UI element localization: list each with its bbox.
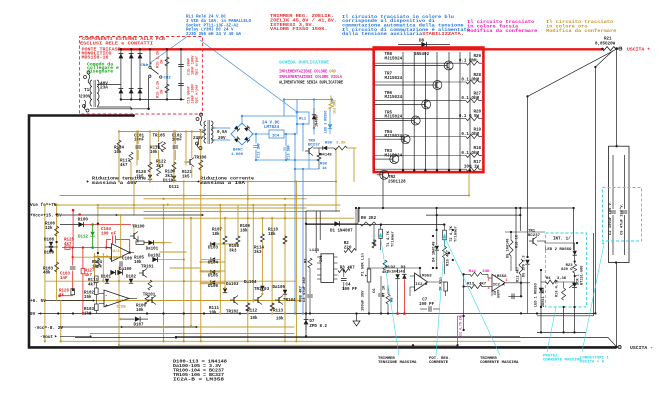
svg-text:C9 47uF 100 V.: C9 47uF 100 V.	[621, 203, 625, 235]
svg-text:5pz a/par: 5pz a/par	[195, 56, 200, 75]
node USCITA+ dot	[615, 47, 618, 50]
svg-text:Da101: Da101	[146, 248, 159, 252]
svg-text:10nF: 10nF	[134, 139, 145, 143]
svg-text:TR105-106 = BC327: TR105-106 = BC327	[173, 374, 225, 378]
svg-text:0V: 0V	[30, 312, 36, 317]
svg-text:0.1 OhM: 0.1 OhM	[461, 132, 479, 137]
svg-text:MJ15024: MJ15024	[385, 77, 403, 81]
svg-text:SCHEDA DUPLICATORE: SCHEDA DUPLICATORE	[279, 62, 330, 66]
regulator IC4 box	[269, 130, 284, 138]
svg-text:D105: D105	[208, 274, 219, 278]
svg-text:230V: 230V	[80, 95, 91, 100]
svg-text:D106: D106	[208, 285, 219, 289]
blue LED3	[328, 124, 332, 128]
wires around error opamp 1	[367, 268, 420, 296]
svg-text:R3 4K7: R3 4K7	[340, 267, 356, 271]
resistor R36b 1k	[317, 153, 321, 161]
svg-text:D107: D107	[134, 323, 145, 327]
0V rail	[38, 313, 537, 315]
svg-text:D111: D111	[169, 186, 180, 190]
vertical wire USCITA+ to capacitor box	[616, 50, 618, 147]
svg-text:TR100-104 = BC237: TR100-104 = BC237	[173, 370, 225, 374]
svg-text:100 uF: 100 uF	[101, 232, 117, 236]
transistor TR8 MJ15024	[375, 53, 454, 70]
svg-text:3k3: 3k3	[156, 164, 164, 169]
svg-text:Trimmer: Trimmer	[391, 231, 396, 247]
capacitor C8 56pF	[511, 294, 513, 300]
wire IC1 section frame	[175, 208, 520, 336]
fucsia resistor R22 wire	[457, 316, 459, 345]
svg-text:R1b 2,2k: R1b 2,2k	[156, 50, 161, 68]
diagonal wire from USCITA+ node	[528, 50, 616, 257]
wire verticals from output bus	[358, 208, 360, 222]
resistor R105b	[148, 280, 152, 290]
svg-text:R113: R113	[273, 310, 284, 314]
svg-text:230V: 230V	[193, 137, 204, 141]
gold wire vertical rails	[45, 96, 469, 345]
svg-text:R36: R36	[320, 163, 328, 167]
svg-text:P1 50K Lin: P1 50K Lin	[361, 252, 366, 276]
svg-text:1k5: 1k5	[182, 174, 190, 179]
svg-text:U/2: U/2	[113, 249, 121, 254]
blue wires auxiliary supply	[215, 100, 332, 314]
relay RL1 box	[297, 112, 309, 124]
svg-text:C6: C6	[373, 288, 377, 293]
wire bottom sense line	[75, 338, 616, 347]
svg-text:Da105: Da105	[273, 286, 286, 290]
svg-text:4k7: 4k7	[88, 282, 96, 287]
svg-text:IC2A-B = LM358: IC2A-B = LM358	[173, 379, 225, 383]
wire -Vcc mid arrow	[121, 326, 123, 328]
svg-text:D104: D104	[208, 262, 219, 266]
wire T1 mid tap	[148, 99, 150, 108]
wire T1 secondary to bridge	[97, 84, 121, 86]
ground symbol	[353, 321, 360, 326]
svg-text:MJ15024: MJ15024	[385, 57, 403, 61]
svg-text:R27: R27	[473, 93, 481, 97]
svg-text:C101: C101	[134, 134, 145, 138]
wire output bus upper right	[359, 207, 574, 209]
svg-text:Modifica da confermare: Modifica da confermare	[467, 29, 538, 34]
junction dots black	[55, 66, 617, 347]
svg-text:820 O: 820 O	[561, 268, 573, 272]
gold wire horizontal rails	[45, 132, 520, 346]
op-amp IC2B main	[104, 290, 129, 307]
fucsia wire net at D2 D3	[397, 279, 399, 313]
svg-text:Da102: Da102	[148, 255, 161, 259]
capacitor C6	[378, 293, 384, 295]
resistor emitter TR100	[136, 241, 144, 244]
svg-text:LED 1 ROSSO: LED 1 ROSSO	[535, 282, 539, 307]
svg-text:C13 1mF: C13 1mF	[288, 145, 292, 160]
svg-text:corrisponde al dispositivo di: corrisponde al dispositivo di	[342, 19, 435, 24]
capacitor C9 symbol	[624, 155, 626, 209]
svg-text:0.1 OhM: 0.1 OhM	[461, 96, 479, 101]
svg-text:MJ15024: MJ15024	[385, 96, 403, 100]
svg-text:10k: 10k	[150, 150, 158, 155]
capacitor C4 100pF	[341, 278, 347, 280]
svg-text:18k: 18k	[268, 232, 276, 237]
svg-text:R1b 2,2k: R1b 2,2k	[156, 80, 161, 98]
svg-text:100k: 100k	[92, 264, 103, 269]
gold rail y281	[45, 280, 297, 282]
svg-text:1/2: 1/2	[116, 299, 124, 304]
svg-text:Da100: Da100	[119, 268, 132, 272]
svg-text:3k3: 3k3	[254, 250, 262, 255]
junction dots blue	[241, 98, 333, 314]
svg-text:MJ15024: MJ15024	[385, 116, 403, 120]
svg-text:Relay LY3HJ DC 24 V: Relay LY3HJ DC 24 V	[186, 28, 234, 33]
resistor R36 3k3	[334, 146, 347, 150]
svg-text:20V: 20V	[218, 137, 226, 141]
transformer T1	[83, 71, 100, 112]
op-amp IC2A comparator	[492, 274, 505, 291]
svg-text:TR101: TR101	[141, 266, 154, 270]
svg-text:C7: C7	[422, 299, 428, 303]
svg-text:Socket PT11-13F-3Z-A2: Socket PT11-13F-3Z-A2	[186, 23, 239, 28]
svg-text:R1: R1	[305, 258, 309, 263]
svg-text:3 VIE da 10A. in PARALLELO: 3 VIE da 10A. in PARALLELO	[186, 19, 251, 24]
diode D1 1N4007	[334, 221, 339, 226]
wire bridge bottom rail	[121, 98, 184, 100]
svg-text:1.000: 1.000	[231, 153, 244, 157]
svg-text:R29: R29	[473, 55, 481, 59]
svg-text:1N4007: 1N4007	[316, 114, 320, 127]
svg-text:1N5402: 1N5402	[414, 53, 430, 57]
wire rail y224.6	[306, 224, 444, 226]
svg-text:USCITA + A: USCITA + A	[580, 361, 605, 365]
svg-text:2: 2	[488, 278, 490, 282]
svg-text:4k7: 4k7	[120, 163, 128, 168]
svg-text:R7 1K: R7 1K	[383, 285, 387, 297]
svg-text:C4: C4	[346, 284, 352, 288]
svg-text:commutazione automatica della: commutazione automatica della tensione	[342, 24, 464, 29]
diode D13 1N4007	[313, 108, 315, 128]
IC1 regulator box	[321, 254, 334, 283]
svg-text:5pz a/par: 5pz a/par	[195, 84, 200, 103]
diode 1N4148 at TR9	[323, 146, 327, 150]
resistor R15 4k7 rotated	[443, 246, 447, 258]
svg-text:10nF: 10nF	[172, 139, 183, 143]
cyan leader line trimmer tensione	[381, 239, 399, 355]
trimmer P1	[367, 269, 371, 282]
junction dot chassis top	[132, 114, 135, 117]
capacitor C12 blue	[253, 145, 259, 147]
svg-text:IC2 A: IC2 A	[493, 284, 506, 288]
resistor R vertical 1k	[444, 282, 448, 291]
thick red positive bus	[118, 48, 602, 50]
svg-text:D103: D103	[208, 246, 219, 250]
svg-text:ZPD 8.2: ZPD 8.2	[309, 325, 327, 329]
svg-text:R13: R13	[467, 283, 475, 287]
svg-text:3k3: 3k3	[165, 174, 173, 179]
wire -Vout stub	[60, 335, 91, 337]
thick chassis border left	[29, 116, 617, 348]
svg-text:0.1 OhM.: 0.1 OhM.	[459, 59, 479, 64]
svg-text:18k: 18k	[240, 228, 248, 233]
wires comparator output	[492, 283, 530, 297]
capacitor box C2 C9 outline	[609, 146, 630, 262]
svg-text:100 PF: 100 PF	[419, 303, 435, 307]
svg-text:LED 3 ROSSO: LED 3 ROSSO	[325, 111, 329, 133]
svg-text:RL1 Relé 24 V.DC: RL1 Relé 24 V.DC	[186, 15, 226, 20]
wire +Vcc rail	[61, 214, 203, 216]
transistor TR6 MJ15024	[375, 92, 431, 109]
svg-text:R19: R19	[473, 128, 481, 132]
svg-text:D7: D7	[309, 320, 315, 324]
svg-text:IMPLEMENTAZIONI COLORE VIOLA: IMPLEMENTAZIONI COLORE VIOLA	[279, 76, 342, 80]
svg-text:L123: L123	[309, 249, 319, 253]
wire D100 branch	[60, 224, 83, 226]
svg-text:0.1 OhM: 0.1 OhM	[461, 151, 479, 156]
svg-text:USCITA -: USCITA -	[630, 345, 653, 351]
svg-text:disegnare: disegnare	[87, 70, 114, 75]
svg-text:0.1 OhM: 0.1 OhM	[461, 77, 479, 82]
red output stage box	[374, 48, 484, 173]
svg-text:R21: R21	[604, 37, 612, 41]
svg-text:48k: 48k	[43, 271, 51, 276]
svg-text:ZOELIK 45,8V / 41,8V.: ZOELIK 45,8V / 41,8V.	[270, 18, 337, 23]
svg-text:4k7: 4k7	[85, 273, 93, 278]
svg-text:in colore fucsia: in colore fucsia	[467, 24, 519, 29]
svg-text:10k: 10k	[209, 310, 217, 315]
svg-text:18k: 18k	[212, 232, 220, 237]
resistor R21 0.05ohm	[602, 47, 616, 51]
svg-text:CN2: CN2	[164, 77, 172, 81]
cyan leader line trimmer corrente	[446, 240, 500, 355]
svg-text:56PF: 56PF	[498, 289, 502, 298]
svg-text:15k: 15k	[84, 295, 92, 300]
svg-text:R20: R20	[473, 111, 481, 115]
svg-text:IMPLEMENTAZIONI COLORE ORO: IMPLEMENTAZIONI COLORE ORO	[279, 71, 336, 75]
svg-text:BT151-600: BT151-600	[581, 266, 585, 285]
svg-text:3,3k: 3,3k	[336, 141, 346, 146]
svg-text:CORRENTE MASSIMA: CORRENTE MASSIMA	[480, 361, 519, 365]
svg-text:B40C: B40C	[233, 149, 243, 153]
svg-text:-: -	[105, 294, 108, 299]
svg-text:100uF 35V: 100uF 35V	[362, 290, 366, 311]
svg-text:dalla tensione ausiliariaSTABI: dalla tensione ausiliariaSTABILIZZATA.	[342, 32, 464, 37]
svg-text:IC2B: IC2B	[116, 306, 126, 310]
svg-text:C102: C102	[172, 134, 183, 138]
trimmer T2 4.7k	[443, 230, 447, 240]
cyan leader line protezione	[547, 307, 556, 352]
svg-text:BC237: BC237	[308, 144, 321, 148]
svg-text:+: +	[105, 304, 108, 309]
svg-text:1: 1	[506, 279, 508, 283]
svg-text:IC2 B: IC2 B	[415, 283, 428, 287]
resistor R14 33k fucsia labels	[470, 272, 482, 276]
svg-text:R15 4K7: R15 4K7	[447, 249, 451, 266]
svg-text:Il circuito tracciato: Il circuito tracciato	[546, 20, 614, 25]
svg-text:Da103: Da103	[226, 283, 239, 287]
wire TR2 emitter stub	[382, 177, 384, 208]
transformer T2	[196, 113, 216, 150]
transistor TR7 MJ15024	[375, 73, 442, 90]
svg-text:CORRENTE: CORRENTE	[429, 361, 449, 365]
resistor column R1b	[165, 48, 169, 99]
cyan dashed protection box	[546, 233, 587, 307]
diagonal wire 2 from USCITA+ node	[595, 51, 612, 313]
svg-text:MDS150-16: MDS150-16	[82, 55, 109, 60]
op-amp IC2 error amplifier	[415, 273, 428, 291]
transistor TR4 MJ15024	[375, 131, 411, 144]
wire Vce stub	[55, 204, 57, 206]
svg-text:+0. 5V: +0. 5V	[30, 299, 46, 304]
svg-text:MJ15024: MJ15024	[385, 154, 403, 158]
svg-text:R22 4,7O 2W: R22 4,7O 2W	[459, 316, 463, 338]
svg-text:D108: D108	[44, 238, 55, 242]
svg-text:D100: D100	[78, 218, 89, 222]
terminal USCITA plus	[619, 47, 622, 50]
svg-text:T2 4,7K: T2 4,7K	[450, 225, 454, 242]
gold columns near R104	[94, 253, 96, 276]
bridge rectifier B40C diamond	[231, 123, 253, 145]
svg-text:10k: 10k	[134, 260, 142, 265]
svg-text:Da100-105 = 3.3V: Da100-105 = 3.3V	[173, 365, 222, 369]
svg-text:ESCLUSI RELE e CONTATTI: ESCLUSI RELE e CONTATTI	[80, 42, 153, 47]
wire capacitor box to bottom bus	[616, 263, 618, 348]
resistor R8	[386, 294, 390, 304]
svg-text:2K2: 2K2	[374, 238, 378, 246]
resistor R5 2k2	[372, 240, 376, 248]
svg-text:TR102: TR102	[226, 310, 239, 314]
svg-text:10k: 10k	[250, 316, 258, 321]
resistor R9 2k2	[360, 222, 376, 226]
wire protection bottom rails	[537, 312, 595, 314]
svg-text:IC4: IC4	[272, 134, 280, 138]
svg-text:Modifica da confermare: Modifica da confermare	[546, 29, 617, 34]
svg-text:3k3: 3k3	[229, 248, 237, 253]
gold column x120	[120, 215, 122, 256]
svg-text:33K: 33K	[482, 270, 490, 274]
svg-text:R8: R8	[390, 297, 394, 302]
svg-text:10k: 10k	[136, 308, 144, 313]
rectifier bridge columns	[119, 48, 143, 101]
resistor R1 4k7	[308, 258, 312, 268]
svg-text:USCITA +: USCITA +	[627, 46, 650, 52]
svg-text:T1 4,7K: T1 4,7K	[387, 230, 391, 247]
svg-text:2SD1128: 2SD1128	[388, 181, 406, 185]
resistor R2 22ohm	[344, 249, 356, 253]
transistor TR5 MJ15024	[375, 111, 421, 125]
svg-text:TENSIONE MASSIMA: TENSIONE MASSIMA	[378, 361, 417, 365]
svg-text:C100: C100	[122, 258, 133, 262]
svg-text:100 PF: 100 PF	[342, 288, 358, 292]
svg-text:Da104: Da104	[244, 281, 257, 285]
svg-text:IC1: IC1	[320, 254, 324, 262]
svg-text:22O: 22O	[344, 246, 352, 250]
wire feedback node	[463, 274, 465, 330]
capacitor column C1b	[178, 48, 184, 99]
svg-text:T1: T1	[84, 88, 90, 93]
cyan leader line pot corrente	[436, 240, 445, 355]
svg-text:12k: 12k	[45, 226, 53, 231]
svg-text:R18: R18	[473, 147, 481, 151]
svg-text:C12 1mF: C12 1mF	[258, 143, 262, 158]
blue leader line to relay RL1	[200, 40, 297, 112]
svg-text:R9 2K2: R9 2K2	[361, 217, 377, 221]
svg-text:10k: 10k	[114, 150, 122, 155]
emitter resistors rows	[375, 55, 483, 171]
svg-text:10k: 10k	[276, 317, 284, 322]
svg-text:TR2: TR2	[388, 176, 396, 180]
svg-text:massima a 40V: massima a 40V	[92, 181, 138, 186]
svg-text:D8: D8	[419, 40, 425, 44]
resistor R13 4k7 row2	[470, 285, 482, 289]
svg-text:D109: D109	[44, 252, 55, 256]
svg-text:-Vcc=-8. 2V: -Vcc=-8. 2V	[34, 326, 63, 331]
op-amp IC2A main	[112, 244, 130, 262]
svg-text:TRIMMER REG. ZOELIK.: TRIMMER REG. ZOELIK.	[270, 15, 334, 19]
red dot on 0V	[82, 312, 85, 315]
capacitor C2 symbol	[612, 155, 614, 209]
svg-text:R14: R14	[469, 270, 477, 274]
svg-text:C2 100uF 100 V.: C2 100uF 100 V.	[609, 201, 613, 235]
capacitor C13 blue	[283, 147, 289, 149]
gold resistor 1k2 top	[329, 102, 333, 109]
cyan leader line connettori	[582, 244, 604, 352]
svg-text:+: +	[109, 258, 112, 263]
svg-text:ZDN11 1k2: ZDN11 1k2	[541, 288, 546, 307]
svg-text:R0B 4K7: R0B 4K7	[300, 285, 304, 302]
svg-text:ALIMENTATORE SERIA DUPLICATORE: ALIMENTATORE SERIA DUPLICATORE	[279, 82, 343, 86]
svg-text:3: 3	[488, 287, 490, 291]
wire driver stubs	[119, 132, 201, 182]
wire protection verticals	[540, 307, 542, 332]
svg-text:TR1 03: TR1 03	[254, 288, 270, 292]
svg-text:MJ15024: MJ15024	[385, 135, 403, 139]
trimmer T1 4.7k	[379, 229, 383, 238]
svg-text:Il circuito tracciato: Il circuito tracciato	[467, 20, 535, 25]
transistor TR3 MJ15024	[375, 150, 403, 163]
node CN2 contact	[160, 76, 162, 78]
svg-text:23A: 23A	[100, 86, 108, 91]
wire rail y215	[426, 214, 520, 216]
wires protection interconnect	[505, 232, 575, 288]
svg-text:CORRENTE MASSIMA: CORRENTE MASSIMA	[543, 359, 582, 363]
wire -Vcc rail	[60, 326, 197, 328]
svg-text:10O 1W: 10O 1W	[464, 166, 480, 170]
svg-text:1k: 1k	[322, 166, 327, 171]
diode D8	[398, 44, 450, 46]
svg-text:R16 4,7K: R16 4,7K	[556, 279, 560, 297]
svg-text:R12 4K7: R12 4K7	[517, 267, 521, 282]
svg-text:0,5A: 0,5A	[217, 131, 228, 135]
diode D7 ZPD8.2	[304, 320, 309, 325]
svg-text:2x1N4148: 2x1N4148	[387, 270, 406, 274]
blue leader line to contact CN1	[150, 36, 188, 63]
svg-text:-Vout: -Vout	[40, 335, 54, 340]
terminal USCITA minus	[615, 346, 618, 349]
svg-text:LM358: LM358	[420, 275, 433, 279]
gold rail y257	[73, 256, 119, 258]
svg-text:Trimmer: Trimmer	[454, 226, 459, 242]
red dashed external components box	[80, 37, 203, 115]
contact CN1 switch	[149, 48, 159, 99]
diode D4 1N4148	[436, 215, 438, 245]
svg-text:D4 1N4148: D4 1N4148	[433, 241, 437, 262]
svg-text:massima a 10A: massima a 10A	[200, 181, 246, 186]
svg-text:in colore oro: in colore oro	[546, 24, 588, 29]
gold opamp plus input	[95, 256, 112, 258]
svg-text:BC237: BC237	[528, 234, 541, 238]
svg-text:Il circuito tracciato in color: Il circuito tracciato in colore blu	[342, 15, 455, 20]
svg-text:D1 1N4007: D1 1N4007	[330, 230, 353, 234]
resistor R6 4k7	[383, 260, 387, 270]
svg-text:VALORE FISSO 150K.: VALORE FISSO 150K.	[270, 28, 328, 32]
svg-text:1k2 ORO: 1k2 ORO	[333, 100, 338, 114]
